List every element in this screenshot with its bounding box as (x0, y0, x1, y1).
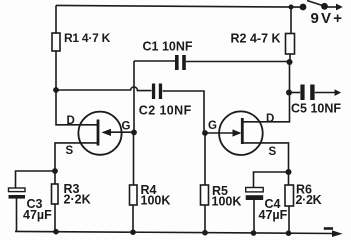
svg-text:S: S (269, 146, 277, 158)
svg-text:47µF: 47µF (23, 208, 52, 222)
svg-text:R1 4·7 K: R1 4·7 K (64, 31, 111, 45)
svg-text:100K: 100K (141, 194, 171, 208)
svg-text:D: D (266, 113, 274, 125)
svg-text:R2 4-7 K: R2 4-7 K (231, 32, 281, 46)
svg-text:2·2K: 2·2K (64, 193, 91, 207)
svg-text:D: D (67, 115, 75, 127)
svg-text:9V+: 9V+ (311, 10, 345, 27)
svg-text:100K: 100K (212, 195, 242, 209)
svg-text:47µF: 47µF (259, 208, 288, 222)
svg-text:S: S (66, 145, 74, 157)
svg-text:2·2K: 2·2K (296, 193, 322, 207)
svg-text:C1 10NF: C1 10NF (143, 40, 193, 54)
svg-text:G: G (208, 120, 217, 132)
svg-text:G: G (122, 121, 131, 133)
svg-text:C5 10NF: C5 10NF (291, 102, 341, 116)
svg-text:C2 10NF: C2 10NF (139, 104, 192, 118)
